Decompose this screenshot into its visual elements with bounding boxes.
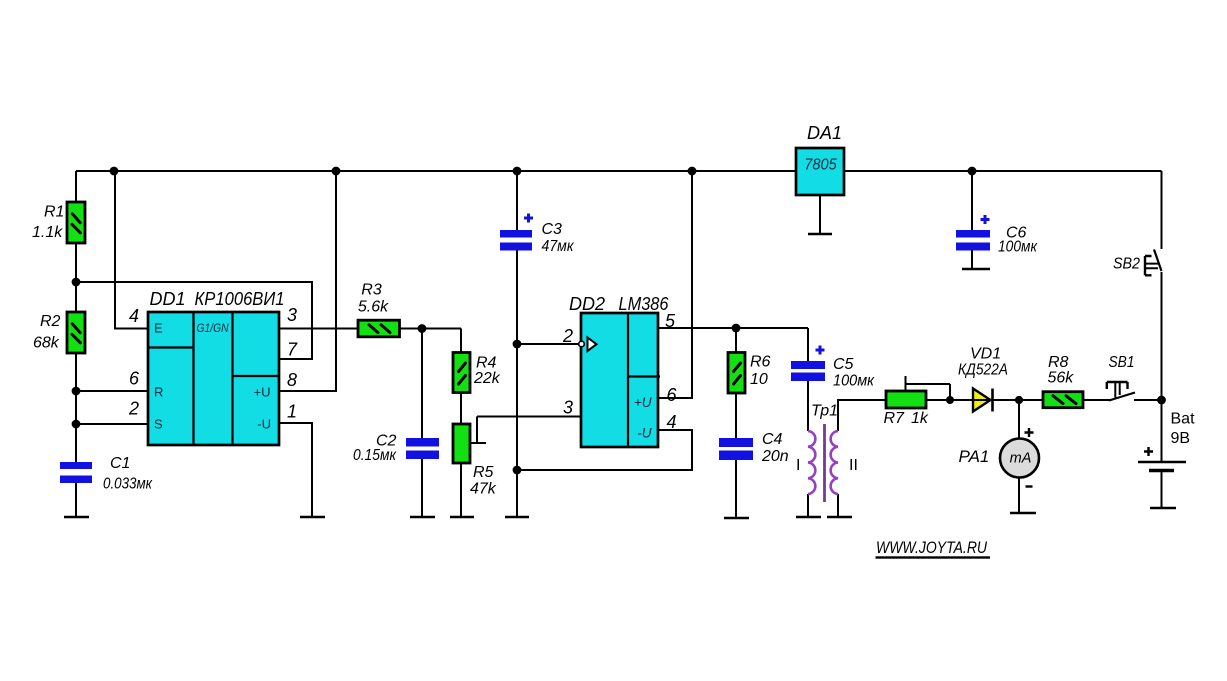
svg-text:C5: C5 (833, 356, 854, 373)
battery plus mark (1144, 447, 1153, 456)
wire: tap to DD1 pin 2 (76, 423, 148, 425)
capacitor C4 (719, 438, 753, 460)
label R5 value (470, 464, 497, 498)
svg-text:10: 10 (750, 371, 768, 388)
label C2 value (353, 433, 397, 465)
label R3 value (358, 282, 389, 316)
junction node: pin6 tap (72, 387, 81, 396)
wire: node to R6 and C4 chain (735, 328, 737, 518)
svg-text:2: 2 (128, 399, 139, 419)
svg-text:R2: R2 (40, 313, 61, 330)
svg-text:7805: 7805 (804, 157, 837, 174)
trimmer resistor R5 (453, 424, 470, 463)
wire: rail to C6 (971, 171, 973, 268)
resistor R8 (1043, 392, 1083, 408)
resistor R6 (728, 353, 745, 394)
svg-text:9В: 9В (1171, 430, 1191, 447)
wire: Tp1 winding I bottom to ground (807, 494, 809, 517)
polarized capacitor C3 (500, 214, 533, 251)
svg-text:1: 1 (287, 402, 297, 422)
label C5 value (833, 356, 875, 390)
svg-text:8: 8 (287, 370, 297, 390)
svg-text:7: 7 (287, 340, 298, 360)
svg-text:R5: R5 (473, 464, 494, 481)
junction node: rail x=114 (110, 167, 119, 176)
voltage regulator DA1 body (796, 148, 844, 195)
svg-text:+U: +U (634, 395, 652, 410)
svg-text:E: E (154, 321, 163, 336)
wire: left vertical branch (R1/R2/C1 chain) (75, 171, 77, 517)
svg-text:SB1: SB1 (1109, 354, 1135, 371)
wire: R8 to SB1 (1083, 399, 1111, 401)
watermark www.joyta.ru (876, 538, 991, 559)
wire: R4 bottom to R5 top (460, 393, 462, 425)
svg-text:mA: mA (1010, 451, 1032, 467)
label R2 value (33, 313, 61, 352)
wire: DD1 pin 8 to +9V rail (280, 171, 336, 391)
svg-text:R3: R3 (361, 282, 382, 299)
junction node: R1/R2 tap (72, 278, 81, 287)
trimmer resistor R7 (886, 391, 926, 408)
label DD2 title (569, 294, 669, 314)
diode VD1 (970, 389, 995, 412)
svg-text:3: 3 (563, 398, 573, 418)
junction node: PA1 branch (1015, 396, 1023, 404)
label Bat 9V (1171, 411, 1196, 448)
label C6 value (998, 225, 1038, 256)
svg-text:R8: R8 (1048, 354, 1069, 371)
junction node: pin2 tap (72, 420, 81, 429)
svg-text:C3: C3 (542, 221, 563, 238)
wire: SB1 to battery node (1134, 399, 1162, 401)
transformer Tp1 winding I (808, 431, 815, 494)
svg-text:R: R (154, 385, 163, 400)
svg-text:S: S (154, 417, 163, 432)
battery Bat plates (1138, 462, 1186, 471)
wire: tap to DD1 pin 6 (76, 390, 148, 392)
svg-text:2: 2 (562, 326, 573, 346)
transformer Tp1 winding II (831, 431, 838, 494)
svg-text:PA1: PA1 (959, 447, 990, 466)
svg-text:I: I (796, 457, 800, 474)
switch SB1 (1107, 382, 1135, 401)
switch SB2 (1145, 250, 1162, 276)
ground: below C1 (64, 516, 89, 519)
transformer Tp1 core (823, 424, 826, 502)
ground: below C4 (724, 517, 749, 520)
label R6 value (750, 354, 771, 389)
wire: rail to C3 (516, 171, 518, 230)
label C1 value (103, 455, 153, 493)
svg-text:5: 5 (665, 311, 676, 331)
wire: DD1 pin 1 to ground (280, 423, 312, 517)
resistor R3 (358, 320, 400, 337)
label R8 value (1048, 354, 1075, 387)
svg-text:3: 3 (287, 305, 297, 325)
svg-text:SB2: SB2 (1113, 256, 1140, 273)
svg-text:68k: 68k (33, 335, 60, 352)
svg-text:R6: R6 (750, 354, 771, 371)
svg-text:C1: C1 (110, 455, 130, 472)
svg-text:VD1: VD1 (970, 346, 1001, 363)
ground: below battery (1150, 507, 1176, 510)
resistor R4 (453, 353, 470, 393)
svg-text:1.1k: 1.1k (32, 224, 63, 241)
svg-text:6: 6 (129, 369, 140, 389)
ground: below R5 (450, 516, 474, 519)
svg-text:6: 6 (667, 385, 678, 405)
wire: R5 wiper to DD2 pin 3 (470, 417, 581, 444)
IC DD2 internal dividers (628, 313, 660, 447)
PA1 minus mark (1026, 485, 1033, 487)
wire: node to DD2 pin 2 (517, 343, 578, 345)
svg-text:R4: R4 (476, 355, 497, 372)
junction node: rail x=336 (332, 167, 341, 176)
svg-text:4: 4 (129, 306, 139, 326)
wire: R7 wiper tap (906, 376, 951, 400)
svg-text:4: 4 (667, 412, 677, 432)
ground: below DD1 pin1 (300, 516, 325, 519)
ground: below C3 line (505, 516, 529, 519)
wire: DA1 ground pin (819, 195, 821, 233)
label DD1 title (150, 289, 285, 309)
svg-text:47мк: 47мк (542, 238, 575, 255)
svg-text:56k: 56k (1048, 370, 1075, 387)
label R4 value (473, 355, 501, 388)
resistor R1 (67, 202, 85, 243)
wire: C3 to DD2 pin2 node down to ground (516, 251, 518, 518)
polarized capacitor C5 (791, 346, 825, 382)
wire: DD1 pin 3 to R3 (280, 328, 358, 330)
junction node: DD2 pin2 (513, 340, 522, 349)
wire: node to PA1 and ground (1018, 400, 1020, 512)
svg-text:1k: 1k (911, 410, 929, 427)
svg-text:100мк: 100мк (998, 239, 1038, 256)
svg-text:C4: C4 (762, 431, 783, 448)
label R7 value (884, 410, 929, 427)
capacitor C2 (406, 438, 439, 459)
svg-text:КР1006ВИ1: КР1006ВИ1 (195, 289, 285, 309)
wire: battery minus to ground (1161, 471, 1163, 507)
junction node: ground bus x=517 (513, 466, 522, 475)
IC DD2 amplifier body (581, 313, 658, 447)
wire: R1/R2 tap to DD1 pin 7 (76, 282, 312, 359)
junction node: DD2 output (732, 324, 741, 333)
svg-text:-U: -U (257, 417, 271, 432)
svg-text:WWW.JOYTA.RU: WWW.JOYTA.RU (876, 538, 988, 557)
svg-text:Тр1: Тр1 (811, 403, 838, 420)
svg-text:G1/GN: G1/GN (197, 321, 229, 335)
svg-text:II: II (849, 457, 858, 474)
PA1 plus mark (1025, 428, 1034, 437)
wire: DD2 pin 4 to ground line (517, 430, 692, 470)
svg-text:DD2: DD2 (569, 294, 605, 314)
IC DD1 timer body (148, 312, 279, 445)
svg-text:20n: 20n (761, 448, 789, 465)
wire: DD2 pin 5 output (658, 327, 808, 329)
label VD1 value (958, 346, 1008, 379)
svg-text:-U: -U (637, 426, 651, 441)
junction node: R7 wiper (946, 396, 954, 404)
svg-text:LM386: LM386 (619, 294, 670, 314)
ground: below C6 (962, 268, 990, 271)
milliammeter PA1 (1000, 439, 1039, 478)
wire: node to C2 and ground (421, 329, 423, 518)
label C4 value (761, 431, 789, 465)
ground: below PA1 (1010, 512, 1036, 515)
junction node: rail x=517 (513, 167, 522, 176)
svg-text:Bat: Bat (1171, 411, 1196, 428)
svg-text:47k: 47k (470, 481, 497, 498)
wire: Tp1 winding II bottom to ground (837, 494, 839, 517)
label R1 value (32, 204, 64, 242)
wire: output node down to C5 (807, 328, 809, 431)
svg-text:DD1: DD1 (150, 289, 186, 309)
svg-text:R1: R1 (44, 204, 64, 221)
svg-text:КД522А: КД522А (958, 362, 1008, 379)
svg-text:DA1: DA1 (807, 123, 842, 143)
svg-text:0.033мк: 0.033мк (103, 476, 153, 493)
wire: VD1 cathode to R8 (992, 399, 1043, 401)
ground: DA1 tab (808, 233, 832, 236)
polarized capacitor C6 (956, 215, 990, 251)
ground: below Tp1 winding I (796, 516, 821, 519)
capacitor C1 (60, 462, 92, 483)
wire: top +9V rail (76, 170, 1162, 172)
wire: +9V to DD1 pin 4 (115, 171, 148, 329)
junction node: R3 output (418, 324, 427, 333)
junction node: battery top (1157, 396, 1166, 405)
wire: right vertical to SB2 (1161, 171, 1163, 249)
wire: Tp1 winding II to R7 (838, 400, 886, 431)
IC DD1 internal dividers (148, 312, 280, 445)
junction node: rail x=692 (688, 167, 697, 176)
svg-text:0.15мк: 0.15мк (353, 447, 397, 464)
svg-text:5.6k: 5.6k (358, 299, 389, 316)
label C3 value (542, 221, 575, 255)
wire: DD2 pin 6 to +9V rail (658, 171, 692, 398)
ground: below C2 (410, 516, 435, 519)
svg-text:22k: 22k (473, 370, 501, 387)
wire: R5 bottom to ground (460, 463, 462, 517)
junction node: rail x=972 (968, 167, 977, 176)
svg-text:+U: +U (254, 385, 271, 400)
resistor R2 (67, 312, 85, 353)
wire: SB2 to battery (1161, 272, 1163, 461)
wire: R7 to VD1 anode (926, 399, 973, 401)
svg-text:R7: R7 (884, 410, 906, 427)
DD2 input triangle marker (579, 338, 597, 352)
svg-text:100мк: 100мк (833, 373, 875, 390)
ground: below Tp1 winding II (827, 516, 852, 519)
wire: R3 to R4 top (399, 329, 461, 353)
